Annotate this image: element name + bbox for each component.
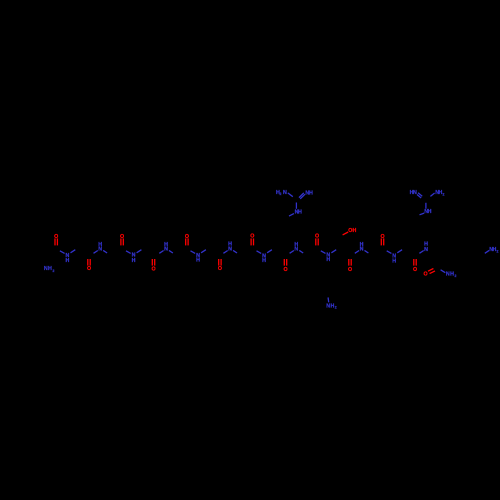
svg-text:O: O	[315, 234, 319, 240]
svg-text:H: H	[392, 258, 396, 264]
svg-text:H: H	[309, 190, 313, 196]
svg-text:O: O	[424, 272, 428, 278]
svg-text:H: H	[132, 258, 136, 264]
svg-text:H: H	[352, 228, 356, 234]
svg-text:2: 2	[52, 269, 54, 273]
svg-text:H: H	[164, 242, 168, 248]
svg-text:H: H	[196, 258, 200, 264]
svg-text:H: H	[48, 266, 52, 272]
svg-text:O: O	[283, 267, 287, 273]
svg-text:2: 2	[335, 306, 337, 310]
svg-text:H: H	[262, 258, 266, 264]
svg-text:H: H	[98, 242, 102, 248]
svg-text:O: O	[54, 234, 58, 240]
svg-text:O: O	[348, 267, 352, 273]
svg-text:O: O	[151, 267, 155, 273]
svg-text:N: N	[424, 247, 428, 253]
svg-text:H: H	[424, 242, 428, 248]
svg-text:2: 2	[443, 193, 445, 197]
svg-text:O: O	[218, 266, 222, 272]
svg-text:O: O	[185, 234, 189, 240]
svg-text:2: 2	[279, 192, 281, 196]
svg-text:H: H	[65, 258, 69, 264]
svg-text:O: O	[413, 267, 417, 273]
svg-text:O: O	[87, 266, 91, 272]
svg-text:O: O	[120, 234, 124, 240]
svg-text:H: H	[228, 242, 232, 248]
svg-text:H: H	[298, 210, 302, 216]
svg-text:N: N	[413, 190, 417, 196]
svg-text:H: H	[294, 242, 298, 248]
svg-text:H: H	[428, 209, 432, 215]
svg-text:2: 2	[454, 274, 456, 278]
svg-text:O: O	[250, 234, 254, 240]
svg-text:2: 2	[497, 249, 499, 253]
svg-text:H: H	[360, 242, 364, 248]
svg-text:O: O	[380, 234, 384, 240]
svg-text:N: N	[283, 190, 287, 196]
svg-text:H: H	[326, 257, 330, 263]
